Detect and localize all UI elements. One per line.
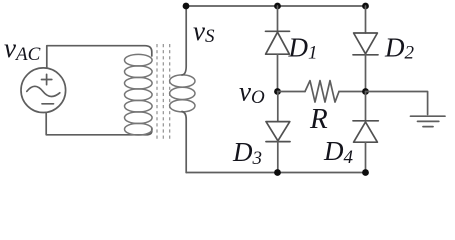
sine wave inside source [27, 86, 60, 96]
wire: D4 bottom lead [365, 142, 367, 172]
diode D1 (cathode up) [266, 31, 290, 54]
wire: top rail [186, 5, 365, 7]
plus sign inside source [42, 74, 52, 84]
svg-text:vAC: vAC [4, 33, 41, 65]
wire: D2 top lead [365, 6, 367, 33]
diode D2 (cathode down) [353, 33, 378, 55]
wire: D2 bottom lead [365, 55, 367, 92]
svg-text:D3: D3 [232, 137, 262, 169]
svg-text:D1: D1 [288, 32, 318, 63]
wire: resistor to right node [339, 91, 366, 93]
wire: bottom rail [186, 172, 365, 174]
svg-text:vO: vO [239, 77, 265, 109]
node: D4 bottom junction dot [362, 169, 369, 176]
node: top-left junction dot [183, 3, 190, 10]
node: right middle junction dot [362, 88, 369, 95]
node: vO junction dot [274, 88, 281, 95]
wire: node to ground [366, 92, 428, 115]
ground symbol [411, 116, 446, 126]
wire: secondary bottom lead [182, 112, 186, 173]
node: D1 top junction dot [274, 3, 281, 10]
diode D3 (cathode down) [266, 122, 290, 142]
transformer core (dashed lines) [157, 44, 170, 139]
wire: source bottom to primary bottom [46, 112, 152, 135]
vAC source circle U1 [21, 68, 66, 113]
svg-text:D2: D2 [384, 32, 415, 63]
node: D3 bottom junction dot [274, 169, 281, 176]
wire: secondary top lead [182, 6, 186, 75]
diode D4 (cathode up) [353, 121, 378, 142]
wire: D1 bottom lead [277, 54, 279, 91]
wire: source top to primary top [47, 46, 152, 68]
wire: vO node to resistor [278, 91, 306, 93]
svg-text:R: R [309, 103, 328, 135]
node: D2 top junction dot [362, 3, 369, 10]
wire: D4 top lead [365, 92, 367, 121]
wire: D1 top lead [277, 6, 279, 31]
wire: D3 bottom lead [277, 142, 279, 173]
transformer secondary coil L2 [170, 75, 195, 112]
svg-text:D4: D4 [323, 136, 354, 168]
transformer primary coil L1 [125, 54, 153, 135]
minus sign inside source [42, 103, 54, 105]
svg-text:vS: vS [193, 16, 215, 47]
resistor R zigzag [305, 81, 339, 103]
wire: D3 top lead [277, 92, 279, 122]
